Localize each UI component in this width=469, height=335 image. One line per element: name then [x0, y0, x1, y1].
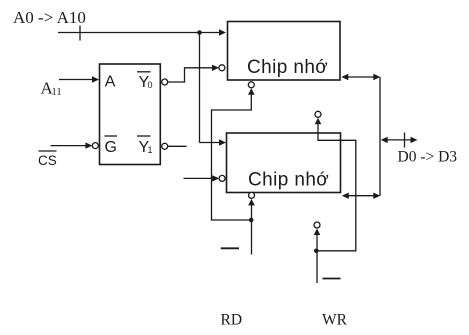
arrowhead CS into G bubble: [85, 142, 92, 148]
wire data stub chip1: [345, 76, 377, 78]
arrowhead into chip1 address: [219, 29, 226, 35]
wire Y1 stub: [168, 145, 187, 147]
svg-text:A: A: [105, 74, 116, 91]
arrowhead up into chip1 RD bubble: [248, 88, 255, 95]
pin label Y1 (active low): [139, 139, 153, 156]
bubble on decoder Y0 output: [162, 79, 168, 85]
chip nhớ U3 box (lower memory chip): [227, 133, 341, 193]
arrowhead right to data bus: [373, 74, 380, 80]
bubble on chip2 CS input: [219, 175, 225, 181]
wire WR vertical: [316, 234, 318, 283]
overline of Y1: [137, 135, 151, 137]
label A11: [41, 79, 62, 99]
arrowhead left on D0-D3 stub: [381, 137, 388, 143]
label CS (active low): [38, 153, 57, 168]
overline of CS: [39, 150, 57, 152]
bus tick on D0-D3: [404, 133, 406, 148]
bubble on chip1 RD input (bottom): [248, 82, 254, 88]
wire chip2 CS input: [184, 177, 213, 179]
node junction on RD line: [249, 218, 254, 223]
svg-text:G: G: [105, 139, 117, 156]
bubble on decoder Y1 output: [162, 143, 168, 149]
wire Y0 to chip1 CS: [168, 68, 213, 82]
bus tick on A0-A10: [79, 26, 81, 41]
arrowhead right on D0-D3 stub: [411, 137, 418, 143]
arrowhead left into chip2 data port: [342, 193, 349, 199]
bubble on decoder G input: [92, 143, 98, 149]
wire A0-A10 bus horizontal: [58, 32, 220, 34]
arrowhead up into chip2 RD bubble: [248, 199, 255, 206]
dash mark near WR: [323, 278, 341, 280]
bubble on chip2 RD input (bottom): [249, 192, 255, 198]
wire data bus vertical: [379, 77, 381, 196]
svg-text:1: 1: [148, 145, 153, 155]
node junction on WR line: [314, 249, 319, 254]
wire RD vertical: [251, 205, 253, 255]
wire A11 input: [59, 79, 93, 81]
svg-text:A0 -> A10: A0 -> A10: [13, 8, 86, 27]
wire bus branch horizontal to chip2: [200, 142, 220, 144]
svg-text:11: 11: [52, 87, 62, 98]
svg-text:D0 -> D3: D0 -> D3: [398, 149, 458, 166]
dash mark near RD: [221, 247, 239, 249]
arrowhead into chip2 address: [219, 139, 226, 145]
bubble on chip1 WR input (floating below chip1): [315, 111, 321, 117]
wire WR branch to chip1: [316, 124, 356, 251]
decoder U1 box: [100, 64, 161, 165]
wire D0-D3 stub: [384, 139, 415, 141]
svg-text:WR: WR: [322, 312, 348, 329]
overline of G: [105, 135, 118, 137]
arrowhead up into chip2 WR bubble: [314, 229, 321, 236]
arrowhead Y0 wire into chip1 CS bubble: [212, 65, 219, 71]
arrowhead up into chip1 WR bubble: [315, 118, 322, 125]
svg-text:Chip nhớ: Chip nhớ: [248, 169, 329, 190]
svg-text:CS: CS: [38, 153, 57, 168]
node junction on A0-A10 bus: [197, 30, 202, 35]
bubble on chip1 CS input: [219, 65, 225, 71]
arrowhead left into chip1 data port: [341, 74, 348, 80]
arrowhead right to data bus (chip2): [373, 193, 380, 199]
arrowhead into chip2 CS bubble: [212, 175, 219, 181]
wire CS input: [51, 145, 87, 147]
wire bus branch vertical to chip2: [199, 33, 201, 143]
pin label Y0 (active low): [139, 74, 153, 91]
wire RD branch to chip1: [212, 94, 252, 221]
overline of Y0: [137, 71, 151, 73]
svg-text:0: 0: [148, 80, 153, 90]
wire data stub chip2: [345, 195, 377, 197]
svg-text:RD: RD: [221, 312, 243, 329]
arrowhead A11 into decoder: [92, 76, 99, 82]
svg-text:Chip nhớ: Chip nhớ: [247, 57, 328, 78]
chip nhớ U2 box (upper memory chip): [228, 22, 341, 81]
bubble on chip2 WR input (floating below chip2): [314, 222, 320, 228]
